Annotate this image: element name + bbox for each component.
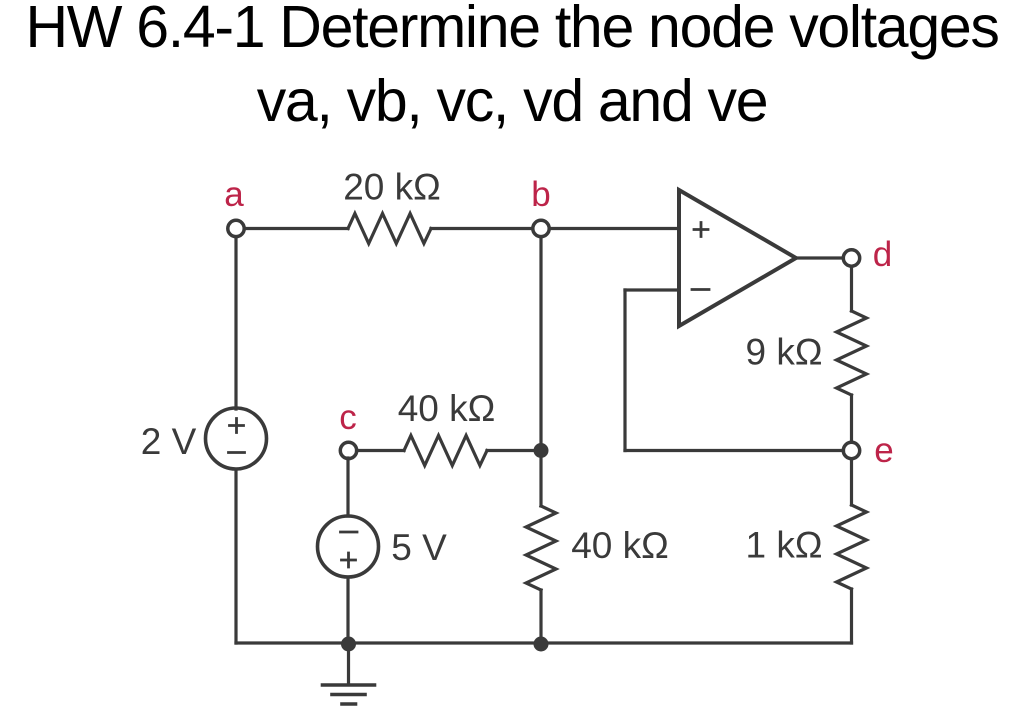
svg-text:40 kΩ: 40 kΩ: [398, 388, 496, 429]
wire d to R 9k: [850, 267, 853, 312]
ground symbol: [323, 685, 375, 704]
svg-text:e: e: [874, 431, 893, 470]
svg-text:5 V: 5 V: [391, 527, 447, 568]
ground stub: [347, 644, 350, 685]
svg-text:b: b: [531, 175, 550, 214]
bottom wire: [236, 641, 852, 644]
wire e to feedback corner: [625, 449, 844, 452]
wire 9k to e: [850, 395, 853, 442]
resistor R1 20 kOhm zigzag: [348, 214, 431, 244]
svg-text:20 kΩ: 20 kΩ: [343, 167, 441, 208]
wire V1 to bottom: [234, 470, 237, 643]
resistor 1 kOhm zigzag: [837, 505, 867, 589]
svg-text:2 V: 2 V: [141, 421, 197, 462]
wire 1k to bottom right corner: [850, 589, 853, 643]
svg-text:d: d: [873, 235, 892, 274]
wire e to R 1k: [850, 459, 853, 505]
junction dot b bottom: [534, 637, 549, 652]
node e terminal: [843, 442, 859, 458]
junction dot ground: [341, 637, 356, 652]
node c terminal: [340, 442, 356, 458]
resistor 40 kOhm horizontal zigzag: [404, 436, 487, 466]
op-amp - input marking: [692, 288, 709, 291]
wire c to R40k: [357, 449, 405, 452]
wire R40k vertical to bottom: [539, 590, 542, 643]
feedback wire vertical: [623, 290, 626, 451]
node b terminal: [533, 220, 549, 236]
resistor 9 kOhm zigzag: [837, 311, 867, 395]
svg-text:1 kΩ: 1 kΩ: [745, 525, 822, 566]
op-amp U1 triangle: [679, 190, 796, 326]
svg-text:40 kΩ: 40 kΩ: [571, 525, 669, 566]
node d terminal: [843, 250, 859, 266]
voltage source V2 5 V: [318, 516, 379, 577]
wire op-amp output to d: [796, 256, 844, 259]
junction dot b column: [534, 443, 549, 458]
wire V2 to ground junction: [346, 577, 349, 643]
svg-text:9 kΩ: 9 kΩ: [745, 332, 822, 373]
wire a down to V1: [234, 237, 237, 410]
wire b down to junction: [539, 237, 542, 451]
wire R1 to b: [431, 227, 533, 230]
wire junction to R40k vertical: [539, 451, 542, 507]
svg-text:a: a: [224, 175, 244, 214]
resistor 40 kOhm vertical zigzag: [526, 506, 556, 590]
wire R40k to junction: [487, 449, 541, 452]
wire c down to V2: [346, 458, 349, 516]
feedback wire to - input: [625, 288, 679, 291]
voltage source V1 2 V: [206, 408, 267, 469]
wire a to R1: [245, 227, 349, 230]
wire b to op-amp + input: [550, 227, 680, 230]
svg-text:c: c: [339, 398, 357, 437]
node a terminal: [228, 220, 244, 236]
op-amp + input marking: [694, 223, 708, 237]
